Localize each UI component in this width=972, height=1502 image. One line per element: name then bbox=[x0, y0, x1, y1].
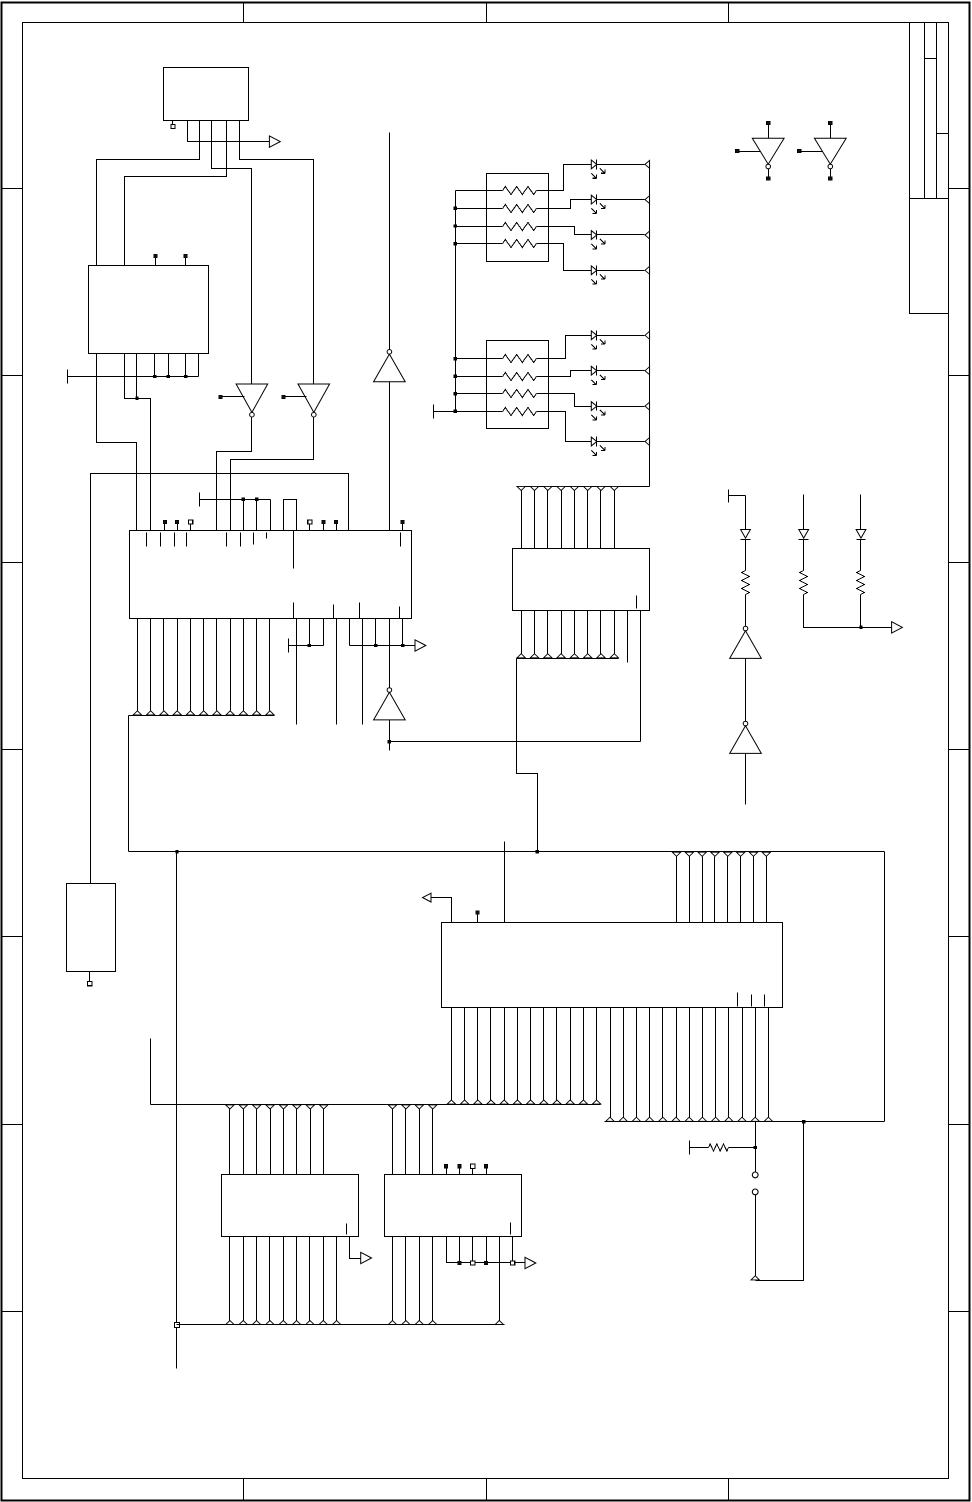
wire U2 pin short bbox=[136, 354, 138, 399]
diode D10 bbox=[803, 495, 805, 530]
wire U6 clock pin bbox=[504, 842, 506, 935]
U4 pin number marks bbox=[146, 533, 148, 547]
U4 top terminal pins bbox=[164, 524, 166, 531]
wire J1 to bus2 bbox=[755, 1195, 757, 1277]
buffer U11A bbox=[767, 121, 770, 124]
IC U7 bbox=[222, 1175, 359, 1237]
buffer U10B bbox=[730, 726, 762, 754]
wire RN row to LED D5 bbox=[537, 336, 592, 359]
U4 ground rail A bbox=[288, 639, 290, 653]
bus entries U7 top bbox=[226, 1105, 234, 1109]
bus LED cathode bbox=[649, 161, 651, 487]
resistor pack RN2 bbox=[487, 341, 549, 429]
inverter U3B bbox=[298, 384, 330, 412]
wire RN row to LED D4 bbox=[537, 244, 592, 271]
U9 ground stub bbox=[89, 972, 91, 982]
wire RN row to LED D8 bbox=[537, 412, 592, 442]
wire RN row to LED D3 bbox=[537, 227, 592, 235]
IC U8 bbox=[385, 1175, 522, 1237]
U2 top power pins bbox=[155, 258, 157, 266]
wire main net left drop bbox=[176, 852, 178, 1369]
wire U8 pin to bottom bus bbox=[499, 1237, 501, 1321]
wire U3B output bbox=[231, 417, 314, 531]
U4 rail B to port bbox=[349, 619, 351, 646]
LED D3 bbox=[591, 231, 597, 240]
bus entries U5 top bbox=[517, 486, 525, 490]
U7 pin number mark bbox=[346, 1224, 348, 1235]
bus entries U6 top bbox=[672, 852, 680, 856]
LED D2 bbox=[591, 195, 597, 204]
wire U10B output bbox=[745, 754, 747, 805]
wire RN row to LED D7 bbox=[537, 394, 592, 407]
port arrow U7 bbox=[361, 1252, 372, 1263]
title block lower box bbox=[910, 199, 949, 314]
wire U4 pin to U3D bbox=[389, 619, 391, 688]
wire U3D output net bbox=[389, 720, 391, 742]
jumper J1 bbox=[755, 1148, 757, 1173]
wire U2 pin to node A bbox=[97, 354, 137, 531]
U6 terminal pin bbox=[476, 911, 479, 914]
buffer U11B bbox=[829, 121, 832, 124]
IC U1 bbox=[164, 68, 249, 121]
zone tick marks bbox=[243, 3, 245, 23]
wire U3C output to U4 bbox=[389, 382, 391, 531]
title block columns bbox=[909, 23, 911, 199]
bus U5 bottom bbox=[521, 611, 523, 655]
wire U1 pin4 to U2 bbox=[125, 121, 227, 266]
IC U5 bbox=[513, 549, 650, 611]
bus1 horizontal bbox=[150, 1039, 152, 1105]
diode D11 bbox=[860, 495, 862, 530]
wire R2 to node bbox=[804, 595, 861, 628]
wire U8 row to port bbox=[447, 1237, 525, 1263]
resistor pack RN1 bbox=[487, 174, 549, 262]
U8 top terminal pins bbox=[446, 1169, 448, 1175]
inverter U3D bbox=[374, 692, 406, 720]
wire U1 pin2 to U2 bbox=[97, 121, 200, 266]
U3A enable input bbox=[219, 395, 222, 398]
wire U1 pin5 to U3B bbox=[240, 121, 314, 385]
bus U7 bottom bbox=[229, 1237, 231, 1321]
bus entries U8 top bbox=[388, 1105, 396, 1109]
wire resistor input bus bbox=[455, 191, 457, 412]
bus U4 data bbox=[137, 619, 139, 711]
resistor R3 bbox=[860, 540, 862, 571]
port arrow rail B bbox=[415, 640, 426, 651]
buffer U10A bbox=[730, 631, 762, 659]
port arrow U8 bbox=[525, 1257, 536, 1268]
wire U1 pin1 to port bbox=[188, 121, 270, 142]
terminal main net bbox=[175, 1323, 180, 1328]
LED D4 bbox=[591, 266, 597, 275]
U2 ground pins bbox=[154, 354, 156, 377]
port arrow pullup net bbox=[892, 622, 903, 633]
wire U4 paired pins loop bbox=[284, 500, 297, 531]
wire pack supply terminator bbox=[433, 405, 435, 419]
bus2 horizontal bbox=[605, 1121, 885, 1123]
wire U5 bus to main net bbox=[517, 659, 538, 852]
resistor R1 bbox=[745, 540, 747, 571]
wire U1 pin3 to U3A bbox=[212, 121, 252, 385]
bus U8 bottom bbox=[392, 1237, 394, 1321]
U11A enable input bbox=[736, 150, 739, 153]
wire main net horizontal bbox=[129, 851, 885, 853]
port arrow input left bbox=[423, 893, 431, 902]
wire main net right drop bbox=[884, 852, 886, 1122]
diode D9 bbox=[745, 496, 747, 530]
output port arrow bbox=[269, 136, 280, 147]
LED D5 bbox=[591, 331, 597, 340]
wire U6 pin to jumper bbox=[755, 1122, 757, 1148]
wire U7 pin to port bbox=[350, 1237, 361, 1259]
wire net CLK vertical bbox=[389, 133, 391, 350]
wire R3 junction to port bbox=[860, 595, 862, 628]
IC U6 bbox=[442, 923, 783, 1008]
wire VCC rail horizontal bbox=[91, 474, 349, 884]
U8 pin number mark bbox=[510, 1223, 512, 1235]
LED D8 bbox=[591, 437, 597, 446]
wire pullup terminator bbox=[728, 490, 730, 503]
U1 pin stub with terminal bbox=[172, 121, 174, 125]
inverter U3A bbox=[236, 384, 268, 412]
LED D7 bbox=[591, 402, 597, 411]
U6 pin number marks bbox=[737, 993, 739, 1007]
wire U3A output bbox=[217, 417, 252, 531]
regulator U9 bbox=[67, 884, 116, 972]
bus bottom horizontal bbox=[177, 1324, 505, 1326]
bus U6 lower left bbox=[451, 1008, 453, 1101]
IC U2 bbox=[89, 266, 209, 354]
U4 open pins bbox=[296, 619, 298, 725]
inverter U3C bbox=[374, 354, 406, 382]
LED D1 bbox=[591, 160, 597, 169]
wire RN row to LED D1 bbox=[537, 165, 592, 191]
LED D6 bbox=[591, 366, 597, 375]
wire RN row to LED D2 bbox=[537, 200, 592, 209]
wire bus3 to main net bbox=[128, 716, 130, 852]
U11B enable input bbox=[798, 150, 801, 153]
wire U2 pin to node B bbox=[125, 354, 151, 531]
wire RN row to LED D6 bbox=[537, 371, 592, 377]
resistor R4 bbox=[689, 1141, 691, 1155]
U5 open pin bbox=[627, 611, 629, 663]
IC U4 bbox=[130, 531, 412, 619]
wire U4 top supply rail bbox=[199, 493, 201, 507]
wire U2 ground rail bbox=[67, 370, 69, 384]
resistor R2 bbox=[803, 540, 805, 571]
U5 pin number mark bbox=[636, 596, 638, 609]
junction node B bbox=[135, 396, 138, 399]
U3B enable input bbox=[282, 395, 285, 398]
wire U10A to U10B bbox=[745, 659, 747, 722]
bus U6 lower right bbox=[610, 1008, 612, 1118]
